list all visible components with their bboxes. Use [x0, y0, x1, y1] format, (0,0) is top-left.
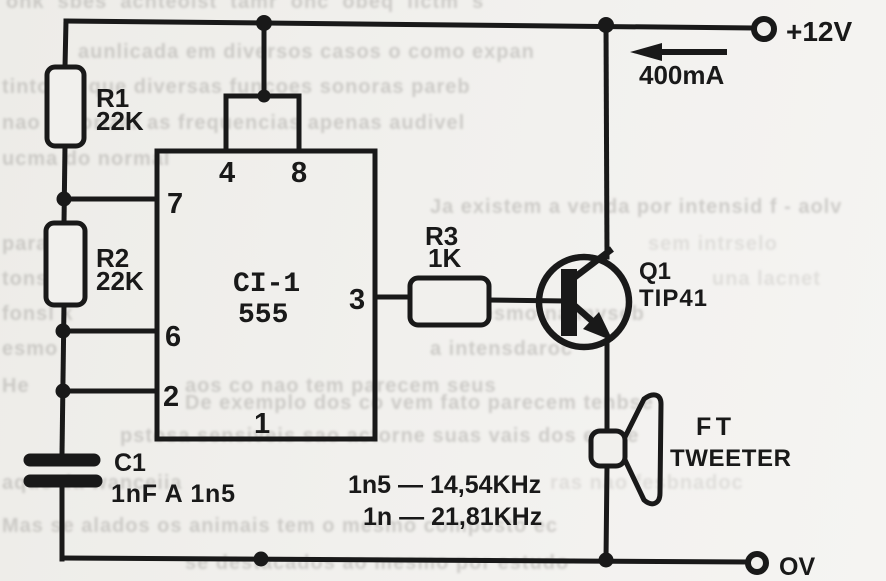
wire R2 to C1: [62, 305, 64, 454]
svg-text:Q1: Q1: [639, 258, 671, 285]
IC U1 CI-1 555 timer: [157, 151, 375, 439]
svg-text:2: 2: [163, 381, 179, 413]
wire pin 6: [63, 329, 157, 334]
wire pin 7: [64, 197, 157, 202]
svg-text:8: 8: [291, 157, 307, 189]
svg-text:1K: 1K: [428, 243, 461, 273]
resistor R3: [410, 278, 489, 325]
wire bottom rail: [62, 558, 748, 562]
wire 4-8 bracket: [226, 94, 299, 99]
svg-text:C1: C1: [114, 449, 146, 477]
resistor R2: [46, 223, 85, 305]
svg-text:TWEETER: TWEETER: [670, 445, 792, 472]
svg-text:CI-1: CI-1: [233, 269, 300, 300]
node pin6: [56, 324, 71, 339]
svg-text:4: 4: [219, 157, 235, 189]
wire R3 to base: [489, 300, 564, 301]
svg-text:400mA: 400mA: [639, 60, 724, 90]
wire pin 8: [297, 96, 302, 151]
wire collector: [606, 24, 607, 257]
wire bracket to top rail: [262, 24, 267, 96]
svg-text:1nF A 1n5: 1nF A 1n5: [111, 480, 236, 508]
svg-text:22K: 22K: [96, 266, 144, 296]
wire pin 4: [224, 96, 229, 151]
node pin1 bottom rail: [254, 552, 269, 567]
current arrow 400mA: [630, 43, 727, 61]
resistor R1: [47, 67, 84, 146]
wire top rail: [66, 21, 752, 28]
svg-text:3: 3: [349, 284, 365, 316]
svg-text:1n5 — 14,54KHz: 1n5 — 14,54KHz: [348, 471, 541, 499]
capacitor C1: [30, 460, 96, 481]
node bracket center: [258, 90, 271, 103]
svg-text:6: 6: [165, 321, 181, 353]
wire C1 to bottom rail: [60, 487, 65, 559]
wire emitter to tweeter: [605, 345, 610, 431]
faint print-through background text: [6, 0, 484, 14]
svg-text:22K: 22K: [96, 106, 144, 136]
svg-text:+12V: +12V: [786, 16, 852, 47]
svg-text:FT: FT: [696, 413, 736, 441]
speaker FT tweeter: [591, 395, 661, 504]
wire R1 to R2: [64, 146, 65, 223]
transistor Q1: [539, 249, 629, 347]
svg-text:OV: OV: [779, 553, 815, 581]
svg-text:TIP41: TIP41: [639, 285, 708, 312]
svg-text:555: 555: [238, 300, 288, 331]
svg-text:7: 7: [167, 188, 183, 220]
wire left column top: [65, 21, 66, 67]
svg-text:1n — 21,81KHz: 1n — 21,81KHz: [363, 503, 542, 531]
node top rail / collector: [598, 17, 614, 33]
terminal +12V: [754, 19, 774, 39]
svg-text:1: 1: [254, 408, 270, 440]
node emitter bottom rail: [599, 553, 614, 568]
wire pin 3 to R3: [375, 295, 410, 300]
terminal 0V: [748, 554, 766, 572]
node top rail / bracket: [256, 15, 272, 31]
wire tweeter to bottom rail: [606, 466, 607, 560]
node pin2: [56, 384, 71, 399]
wire pin 2: [63, 389, 157, 394]
node R1-R2 pin7: [57, 192, 72, 207]
